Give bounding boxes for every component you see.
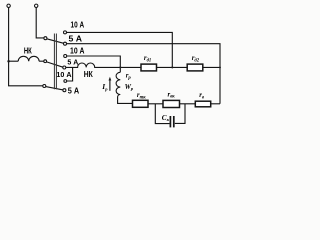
terminal A (left input) [7,4,10,7]
node: junction dot row3/row4 branch [119,66,121,68]
resistor rd2 [187,64,203,71]
resistor rvk [163,100,180,107]
switch pivot P3 [43,85,46,88]
tap 5 terminal (10 A) [64,80,67,83]
node: junction dot middle vertical [171,66,173,68]
wire capacitor branch right [175,104,185,123]
svg-text:5 А: 5 А [67,60,78,67]
wire row1 to middle vertical [67,32,173,67]
wire branch to rd1 [120,66,141,68]
resistor rd1 [141,64,157,71]
wire from terminal A down and right [9,8,43,86]
wire [39,60,44,62]
wire [180,103,196,105]
tap 3 terminal (10 A) [64,55,67,58]
capacitor Ck [170,116,173,127]
svg-text:10 А: 10 А [56,72,71,79]
inductor Wp (wattmeter working coil) [116,72,132,103]
inductor HK1 (left loading coil) [18,56,39,61]
wire [148,103,163,105]
tap 4 terminal (5 A) [63,66,66,69]
wire row3 down to coil branch [67,56,121,72]
transformer core [54,34,56,90]
wire to bottom-right corner [211,103,220,105]
svg-text:5 А: 5 А [68,87,80,96]
svg-text:10 А: 10 А [71,20,85,29]
arrow Ip (current direction) [109,80,111,91]
node: junction dot right vertical [219,66,221,68]
wire from terminal B down and right [36,8,44,38]
switch arm S3 [46,87,63,90]
tap 6 terminal (5 A) [63,89,66,92]
node: junction dot on left wire [7,60,10,63]
wire to coil HK1 [9,60,19,62]
resistor rv [195,101,210,107]
svg-text:НК: НК [24,46,32,56]
wire row4 with inductor HK2 [66,63,121,67]
wire stub from tap5 up to row4 [67,68,73,81]
wire row2 to right vertical [67,44,221,104]
wire capacitor branch left [155,104,169,124]
tap 2 terminal (5 A) [64,42,67,45]
svg-text:5 А: 5 А [69,35,83,44]
switch arm S2 [47,62,63,67]
wire rd2 to right vertical [203,66,220,68]
switch pivot P1 [44,37,47,40]
terminal B (right input) [35,4,38,7]
switch arm S1 [47,39,64,44]
svg-text:НК: НК [84,69,94,79]
wire between rd1 and rd2 [157,66,188,68]
tap 1 terminal (10 A) [64,31,67,34]
switch pivot P2 [44,60,47,63]
resistor rtk [133,100,149,107]
svg-text:10 А: 10 А [70,47,85,56]
